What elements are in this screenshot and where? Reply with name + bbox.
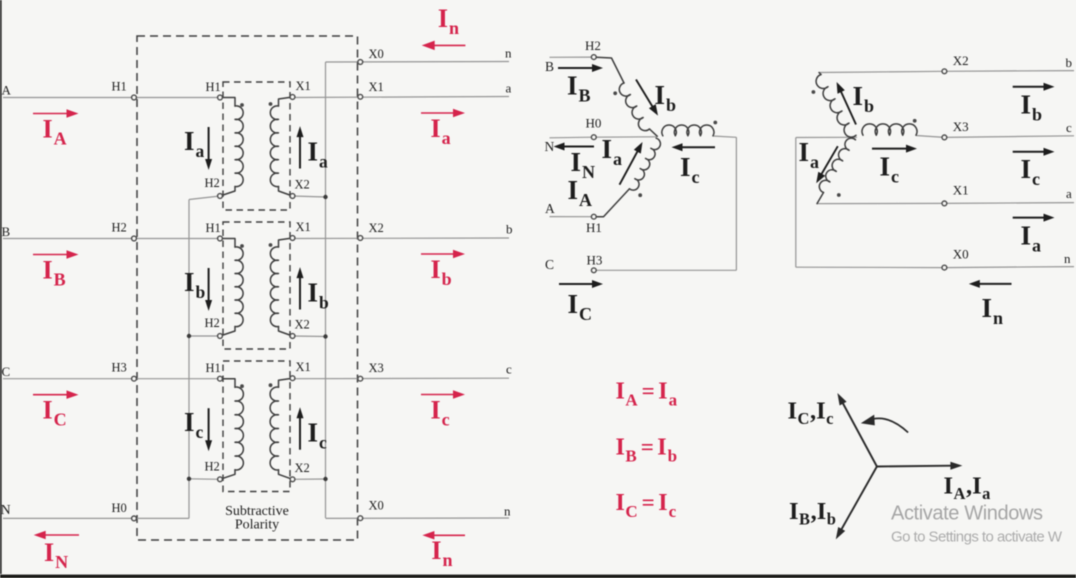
node H2 (middle) xyxy=(591,55,596,60)
node X0 (right) xyxy=(942,265,947,270)
label T1 H2 xyxy=(205,176,220,190)
svg-text:X1: X1 xyxy=(296,79,311,93)
label T3 H1 xyxy=(206,361,221,375)
label T2 H2 xyxy=(205,316,220,330)
label H3 (middle) xyxy=(587,253,603,268)
svg-text:H1: H1 xyxy=(206,361,221,375)
svg-text:A: A xyxy=(2,83,12,98)
arrow I_a diagonal (right wye) xyxy=(816,146,838,183)
arrow I_b diagonal (right wye) xyxy=(837,82,856,125)
svg-text:X0: X0 xyxy=(369,47,384,61)
polarity dot B winding (middle) xyxy=(613,91,617,95)
node T1 H1 xyxy=(218,95,223,100)
svg-text:X0: X0 xyxy=(369,499,384,513)
svg-text:H1: H1 xyxy=(586,220,602,235)
polarity dot c winding (right) xyxy=(913,119,917,123)
arrow Ic primary down xyxy=(205,408,212,451)
label red I_n top xyxy=(438,4,459,38)
svg-text:X1: X1 xyxy=(296,220,311,234)
label red I_b xyxy=(431,255,452,289)
label H1 bus xyxy=(112,80,127,94)
label T1 X1 xyxy=(296,79,311,93)
node T3 H2 xyxy=(218,477,223,482)
label H3 bus xyxy=(112,361,127,375)
arrow I_a diagonal (middle) xyxy=(620,142,643,185)
arrow red I_n top xyxy=(422,41,466,51)
label X0 top xyxy=(369,47,384,61)
label I_a (middle) xyxy=(602,134,623,169)
terminal node X3 bus xyxy=(358,376,363,381)
node T1 X1 xyxy=(290,95,295,100)
transformer T1 secondary polarity dot xyxy=(269,102,273,106)
svg-text:H2: H2 xyxy=(205,316,220,330)
node T3 H1 xyxy=(218,376,223,381)
arrow I_N (middle) xyxy=(554,143,595,151)
label I_c out (right) xyxy=(1021,154,1041,189)
label c right xyxy=(506,362,512,377)
node H3 (middle) xyxy=(591,268,596,273)
svg-text:Polarity: Polarity xyxy=(235,518,279,533)
left edge border bar xyxy=(0,0,2,574)
label B (middle) xyxy=(545,59,554,74)
arrow red I_c xyxy=(421,390,465,399)
phasor vector I_A,I_a xyxy=(877,462,963,470)
terminal node X1 bus xyxy=(358,94,363,99)
arrow red I_C xyxy=(33,390,79,399)
arrow red I_N xyxy=(34,531,79,539)
terminal node H3 bus xyxy=(132,376,137,381)
svg-text:c: c xyxy=(506,362,512,377)
arrow Ib secondary up xyxy=(297,267,304,309)
bottom taskbar line xyxy=(0,575,1076,578)
label Ia secondary xyxy=(308,137,329,172)
svg-text:n: n xyxy=(505,46,512,61)
label T2 H1 xyxy=(206,221,221,235)
label T2 X1 xyxy=(296,220,311,234)
transformer T2 inner dashed box xyxy=(223,222,290,349)
junction primary neutral T3 xyxy=(187,477,191,481)
label Ic secondary xyxy=(308,418,328,453)
label red I_a xyxy=(431,114,451,148)
wire secondary neutral vertical xyxy=(325,62,327,518)
winding b-X2 (right) xyxy=(816,73,856,138)
transformer T1 primary polarity dot xyxy=(240,103,244,107)
label I_B (middle) xyxy=(567,71,591,106)
wire n phase line (right) xyxy=(796,267,1074,268)
junction secondary neutral T3 xyxy=(323,477,327,481)
svg-text:H1: H1 xyxy=(206,80,221,94)
winding a-X1 (right) xyxy=(817,138,856,203)
winding B-H2 (middle) xyxy=(594,57,658,136)
terminal node H1 bus xyxy=(132,95,137,100)
label X1 bus xyxy=(369,80,384,94)
wire primary neutral vertical xyxy=(188,200,190,519)
label Ib primary xyxy=(184,267,206,302)
label B xyxy=(2,224,11,239)
polarity dot C winding (middle) xyxy=(713,121,717,125)
arrow I_c (right wye) xyxy=(872,145,917,153)
label red I_c xyxy=(431,396,450,430)
phasor vector I_C,I_c xyxy=(837,393,877,467)
label X3 (right) xyxy=(953,119,969,134)
svg-text:B: B xyxy=(545,59,554,74)
arrow red I_b xyxy=(421,250,465,258)
node H1 (middle) xyxy=(591,214,596,219)
label A xyxy=(2,83,12,98)
label Ic primary xyxy=(184,407,204,442)
wire b phase line (right) xyxy=(819,71,1074,73)
label b right xyxy=(506,222,513,237)
terminal node H2 bus xyxy=(132,236,137,241)
svg-text:X1: X1 xyxy=(369,80,384,94)
wire T2 H2 stub xyxy=(189,335,220,337)
label b end (right) xyxy=(1066,55,1073,70)
wire bottom neutral n out xyxy=(326,517,510,519)
wire c phase line (right) xyxy=(916,136,1074,138)
label I_c (right wye) xyxy=(880,152,900,187)
node X2 (right) xyxy=(942,69,947,74)
transformer T2 secondary polarity dot xyxy=(269,243,273,247)
node T2 H2 xyxy=(218,334,223,339)
node T2 X1 xyxy=(290,236,295,241)
label I_b (middle) xyxy=(655,80,677,115)
label N xyxy=(1,503,11,518)
arrow I_c (middle) xyxy=(672,143,716,151)
svg-text:H1: H1 xyxy=(112,80,127,94)
label a right xyxy=(506,81,512,96)
label n end (right) xyxy=(1064,251,1071,266)
label H0 bus xyxy=(112,501,127,515)
svg-text:H0: H0 xyxy=(586,116,602,131)
wire C phase line (middle) xyxy=(594,136,737,270)
phasor label I_A,I_a xyxy=(944,473,991,504)
label c end (right) xyxy=(1066,120,1072,135)
svg-text:H3: H3 xyxy=(587,253,603,268)
svg-text:c: c xyxy=(1066,120,1072,135)
transformer T1 inner dashed box xyxy=(223,82,290,210)
label I_a (right wye) xyxy=(799,137,820,172)
watermark Go to Settings xyxy=(891,529,1063,546)
svg-text:C: C xyxy=(545,257,554,272)
svg-text:X1: X1 xyxy=(296,360,311,374)
outer dashed enclosure (transformer bank) xyxy=(137,36,358,540)
svg-text:n: n xyxy=(1064,251,1071,266)
label C xyxy=(2,364,11,379)
arrow I_a out (right) xyxy=(1013,214,1055,222)
label red I_C xyxy=(43,396,67,430)
node T1 X2 xyxy=(290,194,295,199)
phasor label I_C,I_c xyxy=(788,398,834,429)
arrow I_b out (right) xyxy=(1013,83,1055,91)
label T3 X2 xyxy=(295,461,310,475)
polarity dot A winding (middle) xyxy=(638,193,642,197)
caption Subtractive Polarity xyxy=(225,504,289,533)
label I_b out (right) xyxy=(1021,90,1043,125)
arrow red I_B xyxy=(33,250,79,259)
arrow I_c out (right) xyxy=(1013,148,1055,156)
transformer T3 primary winding H1-H2 xyxy=(220,379,243,480)
svg-text:X2: X2 xyxy=(953,53,969,68)
transformer T2 secondary winding X1-X2 xyxy=(270,238,292,336)
transformer T3 secondary winding X1-X2 xyxy=(270,378,292,479)
label red I_A xyxy=(43,115,67,149)
terminal node H0 bus xyxy=(132,516,137,521)
equation I_A = I_a xyxy=(616,379,678,410)
node X3 (right) xyxy=(942,135,947,140)
label X1 (right) xyxy=(953,182,969,197)
node H0 (middle) xyxy=(591,135,596,140)
arrow Ia primary down xyxy=(205,127,212,170)
label X3 bus xyxy=(369,361,384,375)
label X2 (right) xyxy=(953,53,969,68)
label n bottom right xyxy=(504,504,511,519)
svg-text:X3: X3 xyxy=(369,361,384,375)
svg-text:b: b xyxy=(1066,55,1073,70)
wire T2 X2 stub xyxy=(293,335,326,338)
winding c-X3 (right) xyxy=(862,124,917,135)
label red I_N xyxy=(44,538,68,572)
arrow Ib primary down xyxy=(205,268,212,311)
svg-text:X2: X2 xyxy=(295,318,310,332)
wire a phase line (right) xyxy=(817,203,1074,204)
node X1 (right) xyxy=(942,201,947,206)
svg-text:Activate Windows: Activate Windows xyxy=(891,503,1043,525)
label Ia primary xyxy=(184,126,205,161)
label T1 H1 xyxy=(206,80,221,94)
label C (middle) xyxy=(545,257,554,272)
transformer T2 primary winding H1-H2 xyxy=(220,239,243,337)
node T2 H1 xyxy=(218,236,223,241)
arrow red I_n bottom xyxy=(422,531,465,540)
polarity dot b winding (right) xyxy=(812,90,816,94)
label H2 bus xyxy=(112,221,127,235)
svg-text:X2: X2 xyxy=(369,221,384,235)
label T3 X1 xyxy=(296,360,311,374)
wire phase A bus xyxy=(3,97,220,99)
transformer T2 primary polarity dot xyxy=(240,244,244,248)
polarity dot a winding (right) xyxy=(837,193,841,197)
svg-text:A: A xyxy=(545,201,555,216)
wire B phase stub (middle) xyxy=(550,56,594,58)
svg-text:X3: X3 xyxy=(953,119,969,134)
svg-text:a: a xyxy=(1066,186,1072,201)
equation I_C = I_c xyxy=(616,490,677,521)
svg-text:n: n xyxy=(504,504,511,519)
svg-text:H0: H0 xyxy=(112,501,127,515)
svg-text:X1: X1 xyxy=(953,182,969,197)
winding C (middle) xyxy=(662,125,714,136)
label I_N (middle) xyxy=(571,147,596,182)
node T1 H2 xyxy=(218,194,223,199)
label I_c (middle) xyxy=(680,152,700,187)
terminal node X0 bottom xyxy=(358,516,363,521)
label T3 H2 xyxy=(205,459,220,473)
svg-text:C: C xyxy=(2,364,11,379)
transformer T3 primary polarity dot xyxy=(240,384,244,388)
svg-text:H2: H2 xyxy=(112,221,127,235)
wire T1 X2 stub xyxy=(293,196,326,197)
phasor vector I_B,I_b xyxy=(836,467,877,540)
label I_a out (right) xyxy=(1021,220,1042,255)
junction primary neutral T2 xyxy=(187,334,191,338)
label red I_B xyxy=(43,256,66,290)
label X0 (right) xyxy=(953,246,969,261)
svg-text:N: N xyxy=(545,139,555,154)
label H2 (middle) xyxy=(585,38,601,53)
svg-text:a: a xyxy=(506,81,512,96)
svg-text:H3: H3 xyxy=(112,361,127,375)
wire phase c out xyxy=(293,377,510,380)
svg-text:b: b xyxy=(506,222,513,237)
terminal node X2 bus xyxy=(358,236,363,241)
svg-text:H2: H2 xyxy=(205,459,220,473)
label H1 (middle) xyxy=(586,220,602,235)
arrow I_B (middle) xyxy=(558,64,603,72)
transformer T1 secondary winding X1-X2 xyxy=(270,97,292,196)
label n top right xyxy=(505,46,512,61)
wire top neutral n xyxy=(326,61,510,64)
phasor rotation arc arrow xyxy=(861,415,908,433)
phasor label I_B,I_b xyxy=(789,498,836,529)
label T2 X2 xyxy=(295,318,310,332)
arrow red I_A xyxy=(33,109,79,118)
equation I_B = I_b xyxy=(616,434,678,465)
arrow Ia secondary up xyxy=(297,126,304,168)
wire T3 H2 stub xyxy=(189,478,220,481)
wire phase a out xyxy=(293,97,510,98)
label I_b (right wye) xyxy=(853,81,875,116)
wire T3 X2 stub xyxy=(293,478,326,480)
terminal node X0 top xyxy=(358,60,363,65)
label red I_n bottom xyxy=(431,536,452,570)
svg-text:B: B xyxy=(2,224,11,239)
wire phase b out xyxy=(293,237,510,240)
label T1 X2 xyxy=(295,178,310,192)
node T2 X2 xyxy=(290,334,295,339)
arrow red I_a xyxy=(421,109,465,117)
label a end (right) xyxy=(1066,186,1072,201)
wire phase B bus xyxy=(3,238,220,240)
label Ib secondary xyxy=(308,278,330,313)
arrow I_b diagonal (middle) xyxy=(636,80,658,116)
wire phase C bus xyxy=(3,378,220,380)
label I_A (middle) xyxy=(568,175,593,210)
arrow I_n out (right) xyxy=(969,280,1012,288)
wire neutral return (right) xyxy=(796,137,857,267)
wire H0 neutral stub (middle) xyxy=(550,137,657,138)
transformer T3 inner dashed box xyxy=(223,361,290,492)
watermark Activate Windows xyxy=(891,503,1043,525)
label X2 bus xyxy=(369,221,384,235)
svg-text:N: N xyxy=(1,503,11,518)
svg-text:X0: X0 xyxy=(953,246,969,261)
svg-text:H2: H2 xyxy=(585,38,601,53)
wire T1 H2 stub xyxy=(189,196,220,200)
wire A phase stub (middle) xyxy=(550,216,594,218)
label H0 (middle) xyxy=(586,116,602,131)
node T3 X2 xyxy=(290,477,295,482)
svg-text:Go to Settings to activate W: Go to Settings to activate W xyxy=(891,529,1063,546)
label I_n out (right) xyxy=(982,293,1004,328)
arrow I_C (middle) xyxy=(559,280,603,288)
junction secondary neutral T2 xyxy=(323,334,327,338)
arrow Ic secondary up xyxy=(297,407,304,449)
transformer T1 primary winding H1-H2 xyxy=(220,98,243,197)
svg-text:H2: H2 xyxy=(205,176,220,190)
winding A-H1 (middle) xyxy=(594,138,661,216)
label I_C (middle) xyxy=(568,289,593,324)
wire neutral N bus xyxy=(3,517,189,519)
junction secondary neutral T1 xyxy=(323,195,327,199)
svg-text:H1: H1 xyxy=(206,221,221,235)
label A (middle) xyxy=(545,201,555,216)
label X0 bottom xyxy=(369,499,384,513)
label N (middle) xyxy=(545,139,555,154)
transformer T3 secondary polarity dot xyxy=(269,383,273,387)
svg-text:X2: X2 xyxy=(295,178,310,192)
node T3 X1 xyxy=(290,376,295,381)
svg-text:X2: X2 xyxy=(295,461,310,475)
